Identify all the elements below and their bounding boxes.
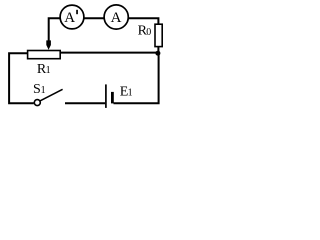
svg-text:A: A xyxy=(64,10,75,26)
wire R1 left terminal, left rail, bottom to switch xyxy=(9,53,34,103)
battery E1 short plate xyxy=(111,92,114,104)
wire switch to battery xyxy=(65,102,105,104)
wire right vertical down then bottom to battery xyxy=(114,53,159,103)
wire R0 bottom to junction xyxy=(157,47,159,53)
svg-text:A: A xyxy=(111,10,122,26)
junction node dot xyxy=(155,51,160,56)
slider arrow on R1 xyxy=(46,40,51,49)
ammeter A xyxy=(104,5,128,29)
prime tick of A' xyxy=(76,10,78,14)
svg-text:1: 1 xyxy=(41,85,46,96)
battery E1 long plate xyxy=(105,84,107,108)
svg-text:0: 0 xyxy=(146,27,151,38)
ammeter A' xyxy=(60,5,84,29)
wire A to top-right corner into R0 xyxy=(128,18,158,24)
switch S1 blade xyxy=(40,89,62,101)
wire R1 right terminal to junction xyxy=(60,52,158,54)
wire top-left corner to ammeter A' xyxy=(49,18,61,40)
wire between A' and A xyxy=(84,17,104,19)
resistor R0 xyxy=(155,24,162,46)
svg-text:1: 1 xyxy=(46,65,51,76)
rheostat R1 xyxy=(28,51,61,59)
svg-text:1: 1 xyxy=(128,87,133,98)
switch S1 hinge circle xyxy=(34,100,40,106)
